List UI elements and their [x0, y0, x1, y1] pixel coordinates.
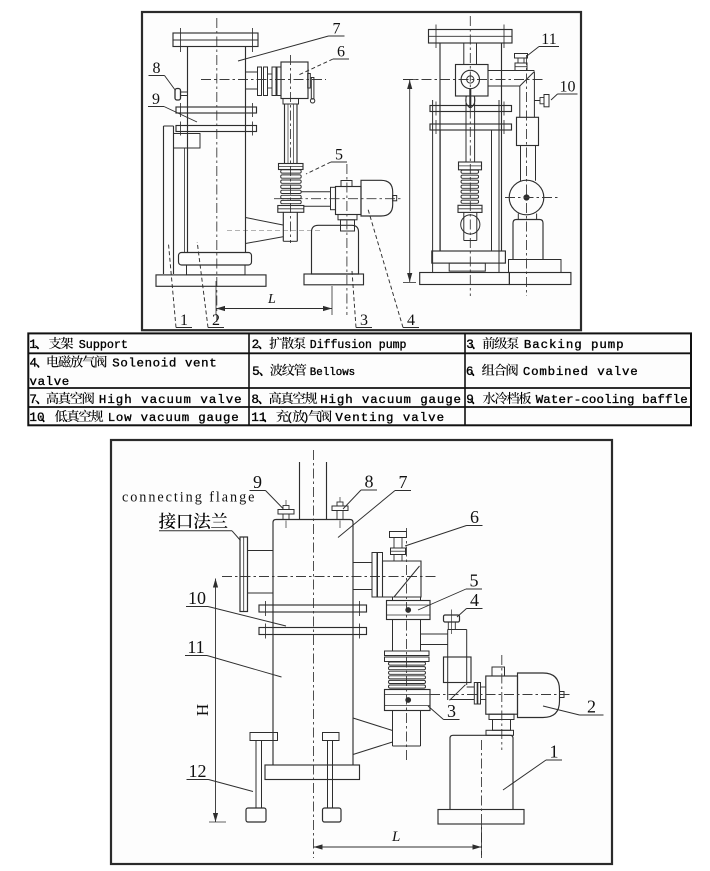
- svg-text:Diffusion pump: Diffusion pump: [310, 339, 407, 352]
- svg-text:8: 8: [153, 60, 161, 77]
- elbow to valve5 pipe: [392, 597, 394, 601]
- elbow body: [383, 561, 422, 597]
- chamber body 11: [273, 520, 353, 766]
- svg-text:2: 2: [587, 697, 596, 717]
- high vacuum valve 5 block: [387, 601, 431, 620]
- svg-text:5: 5: [470, 571, 479, 591]
- diffusion pump heater step: [187, 265, 246, 275]
- svg-text:11: 11: [187, 637, 204, 657]
- motor junction box: [486, 676, 518, 714]
- port flange plates: [372, 553, 377, 598]
- svg-text:2: 2: [212, 312, 220, 329]
- svg-text:5: 5: [252, 365, 260, 379]
- chamber ring flange lower: [259, 628, 367, 635]
- chimney pipe: [299, 462, 301, 520]
- motor nub: [560, 692, 565, 698]
- gauge block: [517, 117, 539, 145]
- diffusion pump side cone: [246, 218, 284, 226]
- valve 6 lower neck: [283, 99, 299, 105]
- left machine horizontal centerline: [201, 79, 326, 81]
- right base plate left: [420, 273, 510, 285]
- bellows top flange: [279, 164, 304, 170]
- svg-text:1: 1: [29, 338, 37, 352]
- chamber bottom plate: [265, 765, 360, 780]
- pipe to backing pump: [301, 191, 331, 193]
- right tube lower: [463, 212, 465, 240]
- valve 6 bolt stack: [390, 532, 407, 538]
- bellows bottom flange: [278, 206, 304, 213]
- svg-text:L: L: [267, 292, 276, 307]
- svg-text:2: 2: [252, 338, 260, 352]
- right machine stem tube: [465, 96, 467, 162]
- svg-text:connecting flange: connecting flange: [122, 490, 256, 506]
- right pump centerline: [526, 55, 528, 296]
- right leg foot: [323, 808, 342, 822]
- motor 2 capsule: [518, 673, 560, 718]
- motor centerline: [430, 694, 570, 696]
- side cone to pump inlet: [353, 718, 393, 731]
- ring flange upper: [176, 107, 257, 113]
- water cooling baffle ring flange: [176, 126, 257, 132]
- port pipe to valve 6: [246, 71, 259, 73]
- svg-text:4: 4: [407, 312, 415, 329]
- motor horizontal centerline: [274, 198, 401, 200]
- svg-text:1: 1: [550, 742, 559, 762]
- right machine support legs: [432, 100, 434, 273]
- svg-text:L: L: [391, 829, 400, 845]
- motor flange: [474, 683, 477, 705]
- svg-text:Backing pump: Backing pump: [524, 338, 625, 352]
- svg-text:5: 5: [335, 147, 343, 164]
- solenoid elbow pipe: [447, 630, 449, 701]
- left machine body: [187, 47, 189, 254]
- right leg top plate: [323, 733, 340, 741]
- right bellows corrugations: [461, 170, 479, 173]
- backing pump inlet flange: [331, 187, 336, 209]
- left leg stem: [255, 741, 257, 809]
- diffusion pump bottom flange: [179, 253, 252, 266]
- svg-text:7: 7: [29, 393, 37, 407]
- dimension L extension lines: [215, 281, 217, 315]
- elbow bevel: [520, 72, 535, 87]
- bolt 8 on top: [332, 506, 348, 511]
- svg-text:H: H: [193, 704, 212, 716]
- left leg foot: [246, 808, 266, 822]
- valve column centerline: [290, 55, 292, 243]
- top figure frame: [142, 12, 581, 330]
- svg-text:10: 10: [29, 411, 44, 425]
- right leg stem: [327, 741, 329, 809]
- motor shaft nub: [393, 196, 397, 201]
- backing pump base: [304, 274, 364, 285]
- solenoid elbow bend: [450, 685, 466, 701]
- chamber centerline: [313, 450, 315, 858]
- flange pair above bellows: [385, 651, 430, 656]
- tee pipe below bellows: [282, 212, 284, 241]
- connecting flange plate: [240, 537, 248, 612]
- high vacuum valve 7 block: [456, 65, 489, 97]
- valve column pipe: [284, 104, 286, 164]
- svg-text:Combined valve: Combined valve: [523, 365, 639, 379]
- valve 6 flange pair A: [258, 67, 262, 96]
- left base plate: [156, 275, 266, 286]
- svg-text:6: 6: [470, 507, 479, 527]
- right pump plate: [509, 260, 562, 273]
- dimension L line: [216, 308, 332, 310]
- svg-text:Venting valve: Venting valve: [335, 411, 445, 425]
- svg-text:High vacuum gauge: High vacuum gauge: [320, 393, 462, 407]
- tee arm to solenoid elbow: [421, 633, 448, 635]
- svg-text:Water-cooling baffle: Water-cooling baffle: [536, 393, 688, 407]
- svg-text:11: 11: [541, 31, 556, 48]
- valve 6 handle: [308, 74, 311, 89]
- svg-text:7: 7: [399, 472, 408, 492]
- pump 1 collar: [489, 714, 514, 719]
- bolt 9 on top: [278, 510, 294, 515]
- right base plate right: [509, 273, 571, 285]
- right machine centerline: [469, 16, 471, 296]
- pipe below valve 5: [392, 620, 394, 652]
- svg-text:7: 7: [333, 21, 341, 38]
- svg-text:Bellows: Bellows: [310, 367, 355, 379]
- vertical dimension line: [409, 80, 411, 282]
- svg-text:9: 9: [466, 393, 474, 407]
- left leg 12 top plate: [250, 733, 278, 741]
- svg-text:9: 9: [152, 91, 160, 108]
- svg-text:9: 9: [253, 472, 262, 492]
- chamber ring flange upper: [259, 605, 367, 612]
- venting valve 11 bolt: [515, 53, 528, 55]
- dimension L bottom: [314, 846, 482, 848]
- right port pipe: [353, 562, 372, 564]
- left machine centerline: [216, 18, 218, 322]
- pump 1 centerline: [481, 740, 483, 858]
- svg-text:3: 3: [360, 312, 368, 329]
- valve 7 wheel circle: [461, 70, 479, 88]
- valve column centerline bottom: [406, 528, 408, 762]
- pump 1 neck: [493, 720, 511, 731]
- elbow down pipe: [519, 86, 521, 117]
- pipe to blower: [520, 146, 522, 181]
- right machine top flange: [429, 30, 513, 44]
- blower horizontal centerline: [505, 197, 560, 199]
- low vacuum gauge 10 bolt: [534, 100, 540, 102]
- bellows 5 corrugations: [281, 170, 302, 173]
- valve 6 tube: [268, 73, 273, 75]
- blower circle: [509, 180, 544, 215]
- dimension H line: [215, 579, 217, 823]
- pipe below valve 3: [392, 711, 394, 747]
- motor neck: [341, 220, 355, 231]
- svg-text:8: 8: [365, 472, 374, 492]
- svg-text:8: 8: [251, 393, 259, 407]
- svg-text:12: 12: [189, 761, 207, 781]
- svg-text:10: 10: [188, 588, 206, 608]
- svg-text:4: 4: [470, 590, 479, 610]
- svg-text:11: 11: [251, 411, 266, 425]
- svg-text:10: 10: [560, 79, 576, 96]
- parts table: [28, 333, 691, 425]
- right bellows top flange: [459, 162, 482, 170]
- svg-text:4: 4: [30, 357, 38, 371]
- right bellows bottom flange: [458, 205, 482, 212]
- right machine body: [439, 43, 441, 251]
- solenoid vent valve 4 bolt: [444, 615, 460, 622]
- svg-text:1: 1: [180, 312, 188, 329]
- right machine horizontal centerline: [403, 79, 545, 81]
- svg-text:3: 3: [466, 338, 474, 352]
- support bracket: [174, 134, 201, 149]
- svg-text:): ): [303, 412, 310, 424]
- left machine cone centerline: [227, 229, 322, 231]
- right machine inner tube: [463, 43, 465, 65]
- motor collar: [338, 215, 357, 220]
- backing pump 1 body: [450, 735, 513, 809]
- right machine step: [449, 263, 485, 271]
- svg-text:Support: Support: [79, 338, 128, 352]
- arm to elbow: [488, 70, 534, 72]
- bellows corrugations bottom figure: [389, 662, 426, 665]
- motor 4 capsule: [361, 180, 393, 216]
- backing pump 3 dome: [312, 225, 359, 274]
- combined valve 6 body: [281, 62, 308, 99]
- high vacuum gauge port 8: [175, 89, 181, 101]
- pump 1 base: [438, 810, 524, 825]
- blower neck: [517, 214, 519, 220]
- svg-text:3: 3: [447, 701, 456, 721]
- right machine ring flange upper: [430, 106, 512, 112]
- solenoid block: [444, 657, 472, 683]
- svg-text:High vacuum valve: High vacuum valve: [99, 393, 243, 407]
- right machine ring flange lower: [430, 124, 512, 130]
- text jiekoufalan: [159, 513, 176, 529]
- motor vertical centerline: [501, 655, 503, 750]
- bottom horizontal centerline: [222, 576, 436, 578]
- connecting flange pipe: [248, 550, 274, 552]
- svg-text:Low vacuum gauge: Low vacuum gauge: [108, 411, 240, 425]
- valve 7 stem pin: [469, 89, 471, 108]
- bottom figure frame: [111, 440, 612, 864]
- backing pump junction box: [336, 187, 362, 215]
- backing pump centerline: [346, 164, 348, 315]
- support column left: [163, 126, 165, 274]
- svg-text:valve: valve: [30, 375, 70, 389]
- valve 6 flange pair B: [272, 67, 276, 96]
- right machine bottom flange: [432, 251, 506, 263]
- sight glass ball: [461, 215, 480, 234]
- lower valve 3 block: [385, 690, 431, 711]
- svg-text:Solenoid vent: Solenoid vent: [112, 357, 217, 371]
- left machine top flange: [173, 33, 258, 47]
- right pump pedestal: [513, 220, 543, 260]
- bolt tick marks: [285, 521, 287, 529]
- svg-text:6: 6: [466, 365, 474, 379]
- svg-text:6: 6: [337, 44, 345, 61]
- svg-text:(: (: [287, 412, 294, 424]
